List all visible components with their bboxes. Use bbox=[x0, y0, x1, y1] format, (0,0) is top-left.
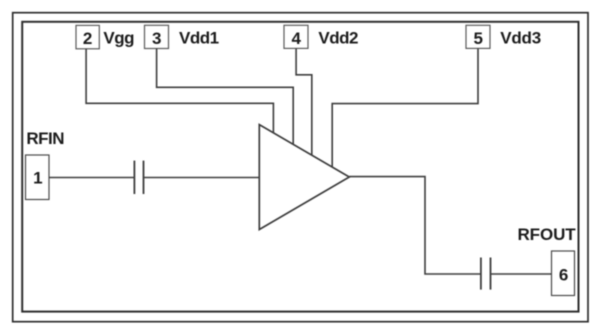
svg-text:2: 2 bbox=[83, 29, 92, 48]
wire pin 5 (Vdd3) to amplifier bbox=[332, 48, 478, 166]
svg-text:Vdd2: Vdd2 bbox=[318, 28, 358, 47]
svg-text:6: 6 bbox=[559, 266, 568, 285]
wire pin 1 (RFIN) to capacitor C1 bbox=[49, 177, 134, 179]
svg-text:4: 4 bbox=[292, 29, 302, 48]
capacitor C2 (output DC block) bbox=[481, 258, 491, 290]
capacitor C1 (input DC block) bbox=[134, 161, 143, 194]
pin 4 box bbox=[284, 25, 308, 48]
pin 1 box bbox=[26, 155, 50, 200]
wire pin 2 (Vgg) to amplifier bbox=[86, 49, 273, 133]
op-amp U1 amplifier triangle bbox=[259, 125, 349, 230]
svg-text:1: 1 bbox=[33, 169, 42, 188]
wire pin 3 (Vdd1) to amplifier bbox=[157, 49, 294, 145]
pin 6 box bbox=[552, 251, 575, 296]
svg-text:Vdd1: Vdd1 bbox=[179, 28, 219, 47]
pin 3 box bbox=[145, 25, 169, 48]
pin 5 box bbox=[466, 25, 490, 48]
wire amplifier output to capacitor C2 bbox=[349, 177, 481, 274]
svg-text:3: 3 bbox=[152, 29, 161, 48]
pin 2 box bbox=[76, 25, 99, 48]
svg-text:Vdd3: Vdd3 bbox=[500, 28, 541, 47]
wire C1 to amplifier input bbox=[144, 177, 260, 179]
svg-text:RFIN: RFIN bbox=[26, 129, 64, 148]
wire C2 to pin 6 (RFOUT) bbox=[491, 273, 552, 275]
svg-text:RFOUT: RFOUT bbox=[518, 225, 577, 244]
svg-text:5: 5 bbox=[474, 29, 483, 48]
svg-text:Vgg: Vgg bbox=[103, 28, 134, 47]
wire pin 4 (Vdd2) to amplifier bbox=[296, 48, 312, 155]
